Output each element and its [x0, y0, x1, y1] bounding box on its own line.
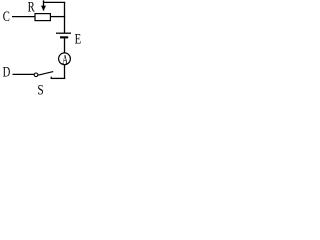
svg-text:E: E — [75, 31, 82, 47]
svg-text:R: R — [28, 0, 36, 15]
svg-text:S: S — [37, 82, 43, 96]
svg-text:C: C — [3, 9, 10, 25]
svg-text:D: D — [3, 64, 11, 80]
svg-text:A: A — [62, 52, 68, 67]
